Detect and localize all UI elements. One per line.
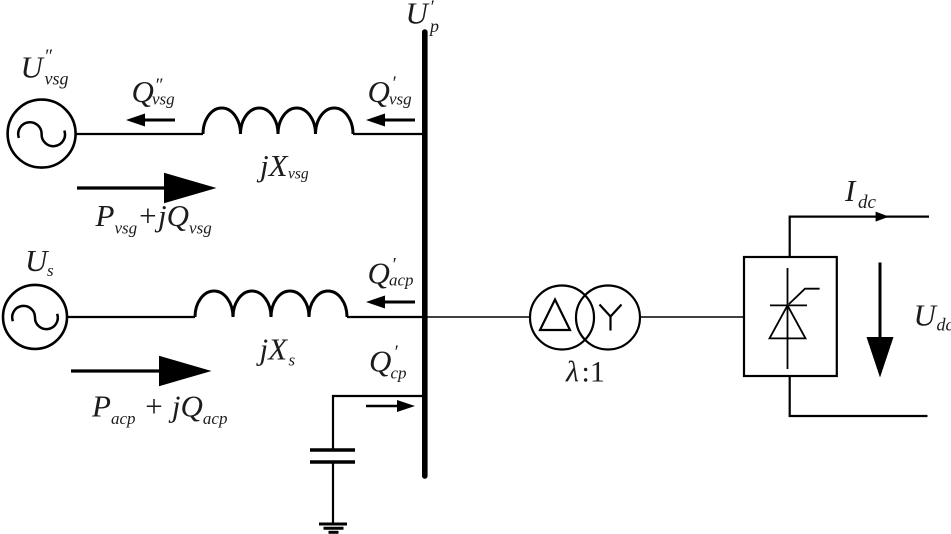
svg-text:jX: jX [256,332,289,367]
delta symbol [540,300,570,331]
svg-text:jX: jX [256,148,289,183]
wire converter top to dc line [790,217,929,256]
label Idc [844,173,877,213]
label Q'acp [368,255,414,291]
arrow Q'acp (left) [366,296,415,309]
wire source1 to inductor1 [75,133,203,135]
wire capacitor to ground [332,464,334,524]
inductor jXvsg [203,108,353,134]
svg-text:Q: Q [368,256,390,291]
label lambda:1 [565,356,605,389]
svg-text:Q: Q [369,344,391,379]
inductor jXs [195,291,347,317]
svg-text:s: s [47,261,54,280]
wire inductor1 to bus [353,133,422,135]
label Q'vsg [368,73,412,109]
power-flow arrow Pacp+jQacp [71,356,212,386]
svg-text:Q: Q [368,74,390,109]
svg-text:dc: dc [937,315,951,335]
AC source U''vsg [8,100,76,168]
svg-text:vsg: vsg [152,90,175,109]
svg-text:Q: Q [132,74,154,109]
label Q''vsg [132,74,175,109]
svg-text:U: U [21,50,46,85]
label jXs [256,332,296,370]
svg-text:I: I [844,173,857,208]
arrow Q'cp (right) [366,400,415,412]
wire inductor2 to bus [347,316,422,318]
svg-text::1: :1 [582,356,605,389]
svg-text:s: s [289,351,296,370]
svg-text:dc: dc [858,192,877,213]
bus node U'p [422,32,428,476]
converter box [744,257,837,376]
label U''vsg [21,46,69,89]
svg-text:U: U [406,0,431,31]
wire source2 to inductor2 [68,316,195,318]
arrow Idc [876,212,889,222]
label U'p [406,0,440,36]
wire transformer to converter [640,316,743,318]
svg-text:″: ″ [44,46,53,67]
arrow Udc (down) [867,263,894,378]
label Us [25,243,54,280]
wye symbol [600,305,622,331]
svg-text:U: U [914,298,939,333]
svg-text:λ: λ [565,356,579,389]
transformer T1 wye winding [576,286,640,350]
capacitor C plates [310,448,355,452]
wire converter bottom to dc return [790,376,928,416]
wire bus to transformer [427,316,530,318]
svg-text:p: p [428,16,439,36]
label Q'cp [369,342,407,383]
arrow Q'vsg (left) [366,114,415,127]
capacitor branch wire [333,396,422,449]
thyristor inside converter [770,268,820,369]
label jXvsg [256,148,309,183]
svg-text:vsg: vsg [288,166,309,183]
ground [319,524,347,532]
svg-text:vsg: vsg [389,90,412,109]
AC source Us [3,285,67,349]
svg-text:vsg: vsg [45,69,69,89]
power-flow arrow Pvsg+jQvsg [77,173,217,203]
label Udc [914,298,951,335]
transformer T1 delta winding [530,286,594,350]
svg-text:acp: acp [389,271,414,290]
svg-text:cp: cp [391,364,407,383]
arrow Q''vsg (left) [126,114,175,127]
